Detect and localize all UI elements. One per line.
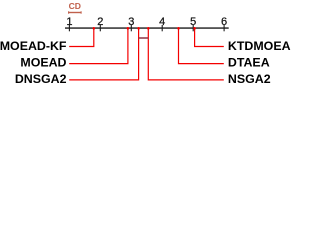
svg-text:1: 1	[66, 16, 72, 28]
elbow line KTDMOEA	[195, 28, 224, 46]
axis line	[65, 27, 229, 29]
elbow line DTAEA	[179, 28, 224, 63]
svg-text:3: 3	[128, 16, 134, 28]
elbow line NSGA2	[148, 28, 224, 80]
marker dot NSGA2	[147, 27, 150, 30]
tick 1	[68, 25, 70, 31]
tick 4	[161, 25, 163, 31]
tick 5	[192, 25, 194, 31]
svg-text:KTDMOEA: KTDMOEA	[228, 39, 291, 53]
elbow line MOEAD	[69, 28, 128, 63]
tick 6	[223, 25, 225, 31]
CD bar right end cap	[80, 11, 82, 13]
svg-text:NSGA2: NSGA2	[228, 72, 271, 86]
svg-text:CD: CD	[69, 1, 81, 11]
marker dot DNSGA2	[137, 27, 140, 30]
elbow line MOEAD-KF	[69, 28, 94, 46]
svg-text:MOEAD: MOEAD	[20, 56, 66, 70]
svg-text:6: 6	[221, 16, 227, 28]
CD interval bar	[68, 12, 81, 14]
svg-text:DTAEA: DTAEA	[228, 56, 270, 70]
marker dot KTDMOEA	[193, 27, 196, 30]
tick 3	[130, 25, 132, 31]
clique crossbar DNSGA2-NSGA2	[139, 37, 149, 39]
svg-text:MOEAD-KF: MOEAD-KF	[0, 39, 67, 53]
tick 2	[99, 25, 101, 31]
svg-text:2: 2	[97, 16, 103, 28]
elbow line DNSGA2	[69, 28, 138, 80]
svg-text:DNSGA2: DNSGA2	[15, 72, 67, 86]
marker dot MOEAD-KF	[93, 27, 96, 30]
svg-text:4: 4	[159, 16, 165, 28]
CD bar left end cap	[68, 11, 70, 13]
marker dot MOEAD	[127, 27, 130, 30]
marker dot DTAEA	[177, 27, 180, 30]
svg-text:5: 5	[190, 16, 196, 28]
